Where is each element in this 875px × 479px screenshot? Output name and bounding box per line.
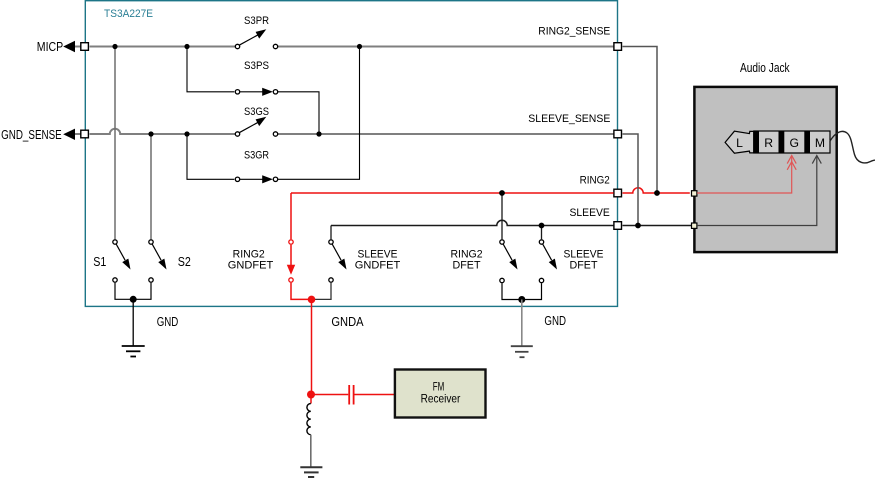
jack plug contact strip R G M (754, 131, 830, 153)
svg-text:TS3A227E: TS3A227E (104, 8, 153, 20)
svg-text:SLEEVE: SLEEVE (570, 207, 610, 219)
label TS3A227E (104, 8, 153, 20)
switch S3GR (235, 150, 277, 184)
svg-text:DFET: DFET (570, 260, 598, 272)
block Audio Jack body (694, 87, 836, 252)
switch S3PS (235, 60, 277, 96)
node GNDA red junction dot (308, 296, 316, 304)
port jack RING2 square (692, 191, 697, 196)
wire SLEEVE net with hop over RING2 DFET wire (331, 220, 691, 225)
transistor RING2 DFET (450, 193, 517, 283)
svg-text:GNDA: GNDA (331, 315, 364, 329)
label GND (left) (157, 315, 179, 329)
label GNDA (331, 315, 364, 329)
inductor L1 (307, 395, 311, 435)
port GND_SENSE arrow and label (1, 128, 88, 142)
svg-text:GND_SENSE: GND_SENSE (1, 128, 62, 142)
node GND (right) junction dot (518, 296, 525, 303)
svg-text:S3GS: S3GS (244, 106, 269, 118)
switch S3PR (235, 15, 277, 49)
jack plug tip L (725, 131, 754, 153)
ground symbol bottom (300, 435, 322, 477)
switch S3GS (235, 106, 277, 136)
wire cable squiggle from M (830, 131, 875, 163)
capacitor C1 (red) (349, 385, 395, 405)
port jack SLEEVE square (692, 223, 697, 228)
wire vertical from MICP to S1 (114, 47, 116, 240)
svg-text:S3PR: S3PR (244, 15, 269, 27)
svg-text:L: L (736, 136, 743, 150)
port RING2 square and label (580, 174, 622, 197)
transistor SLEEVE DFET (539, 226, 603, 283)
label GND (right) (544, 314, 566, 328)
svg-text:S2: S2 (178, 255, 191, 269)
svg-text:Audio Jack: Audio Jack (740, 61, 790, 75)
wire S3PS output to GND_SENSE net (278, 92, 319, 134)
wire RING2_SENSE to RING2 node (623, 47, 658, 191)
svg-text:S3GR: S3GR (244, 150, 269, 162)
wire gray arrow to M contact (697, 156, 821, 226)
node GND junction dot (130, 296, 137, 303)
svg-text:GNDFET: GNDFET (228, 260, 274, 272)
svg-text:S1: S1 (93, 255, 106, 269)
junction dots on MICP net (112, 44, 362, 49)
svg-text:GND: GND (544, 314, 566, 328)
port RING2_SENSE square and label (538, 25, 621, 50)
junction dot SLEEVE_SENSE tap (635, 223, 641, 229)
wire GND_SENSE net horizontal with hop over x=115 (75, 129, 614, 134)
svg-text:R: R (764, 136, 773, 150)
svg-text:M: M (815, 136, 825, 150)
wire S1/S2 commons to GND node (115, 283, 151, 300)
wire MICP net horizontal (75, 46, 614, 48)
port SLEEVE_SENSE square and label (528, 113, 621, 138)
junction dot RING2_SENSE tap (654, 190, 660, 196)
switch S1 (93, 240, 130, 282)
wire branch MICP to S3PS (187, 47, 234, 92)
port SLEEVE square and label (570, 207, 622, 230)
switch S2 (149, 240, 191, 282)
ground symbol right (511, 300, 533, 358)
svg-text:RING2_SENSE: RING2_SENSE (538, 25, 610, 37)
svg-text:G: G (790, 136, 799, 150)
svg-text:GND: GND (157, 315, 179, 329)
junction dots on GND_SENSE net (148, 131, 321, 136)
svg-text:GNDFET: GNDFET (355, 260, 401, 272)
wire RING2 net (red) (291, 188, 690, 193)
wire DFET commons to GND node (502, 283, 542, 299)
svg-text:DFET: DFET (453, 260, 481, 272)
label Audio Jack (740, 61, 790, 75)
port MICP arrow and label (37, 40, 89, 54)
IC body U1 TS3A227E (85, 1, 617, 307)
svg-text:S3PS: S3PS (244, 60, 269, 72)
wire GNDA to FM node (red) (311, 299, 348, 394)
transistor SLEEVE GNDFET (315, 226, 401, 300)
wire S3GR output up to MICP/RING2_SENSE net (278, 47, 360, 180)
svg-text:MICP: MICP (37, 40, 63, 54)
svg-text:SLEEVE_SENSE: SLEEVE_SENSE (528, 113, 610, 125)
wire SLEEVE_SENSE to SLEEVE node (623, 134, 639, 223)
junction dot RING2 DFET tap (499, 190, 505, 196)
svg-text:Receiver: Receiver (421, 391, 461, 405)
svg-text:RING2: RING2 (580, 174, 610, 186)
wire vertical from GND_SENSE to S2 (150, 134, 152, 239)
transistor RING2 GNDFET (red closed switch) (228, 193, 308, 299)
ground symbol left (122, 299, 145, 356)
junction dot SLEEVE DFET tap (539, 223, 545, 229)
wire red arrow to G contact (697, 156, 796, 194)
wire branch GND_SENSE to S3GR (187, 134, 234, 179)
node FM junction red dot (307, 391, 315, 399)
block FM Receiver (395, 370, 486, 418)
